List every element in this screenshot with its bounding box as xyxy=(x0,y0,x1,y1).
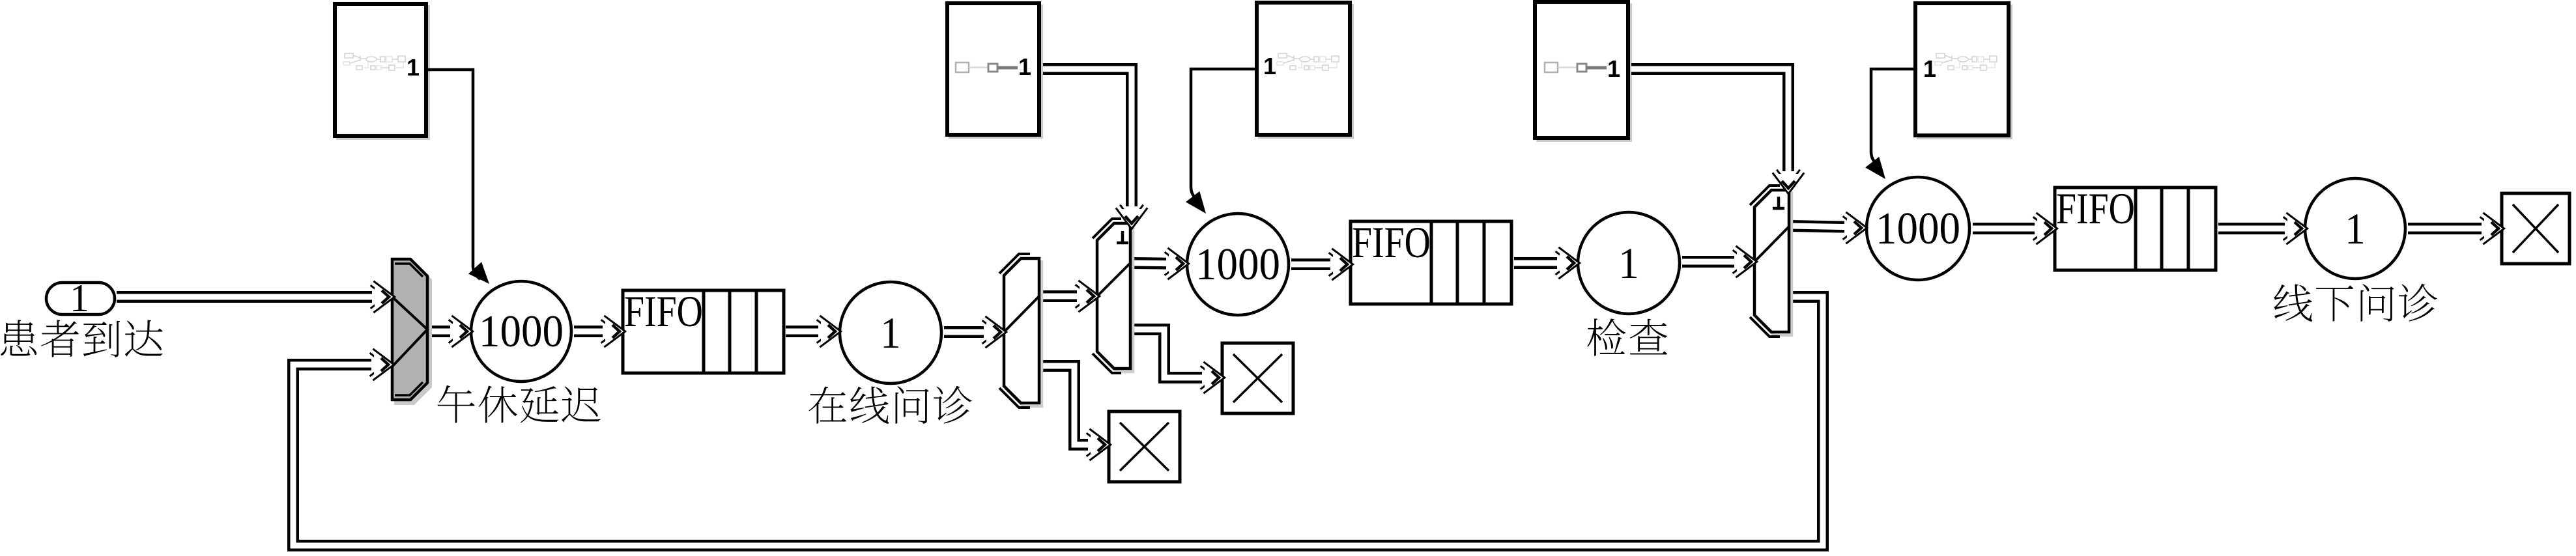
subsystem box B5 (schedule generator 3) xyxy=(1915,3,2011,138)
subsystem box B1 (schedule generator 1) xyxy=(335,4,429,139)
subsystem box B3 (schedule generator 2) xyxy=(1257,3,1352,137)
subsystem box B2 (item source for split S2) xyxy=(947,3,1042,137)
wire source capsule to merge block top input xyxy=(117,291,388,303)
delay circle 1000 (third) xyxy=(1867,177,1969,280)
label 患者到达 (patient arrival) xyxy=(1,320,162,357)
svg-text:1000: 1000 xyxy=(479,306,564,357)
svg-text:1: 1 xyxy=(1618,239,1639,288)
wire delay circle 1000 (second) to FIFO queue 2 xyxy=(1291,258,1347,270)
arrowhead into merge top input xyxy=(372,283,390,311)
wire B2 down to split S2 top input xyxy=(1043,69,1132,223)
signal wire B3 to delay circle 1000 (second) xyxy=(1186,69,1257,214)
arrowhead into sink X1 xyxy=(1088,431,1106,458)
arrowhead into FIFO queue 2 xyxy=(1330,251,1349,278)
arrowhead into delay circle 1000 (second) xyxy=(1166,250,1184,277)
arrowhead into activity circle 检查 xyxy=(1557,249,1575,277)
FIFO queue 3 xyxy=(2055,185,2216,270)
wire split S1 top output to split S2 input xyxy=(1042,290,1093,302)
wire split S3 top output to delay circle 1000 (third) xyxy=(1792,226,1861,227)
faint sub-diagram inside B2 xyxy=(956,63,1018,72)
delay circle 1000 (second) xyxy=(1187,214,1289,315)
svg-text:1: 1 xyxy=(2345,204,2366,254)
svg-text:1: 1 xyxy=(1263,53,1276,79)
signal wire B5 to delay circle 1000 (third) xyxy=(1865,69,1915,179)
sink X2 (exit after split S2) xyxy=(1222,343,1293,413)
wire activity circle 线下问诊 to sink X3 xyxy=(2408,223,2498,234)
arrowhead into sink X2 xyxy=(1202,364,1220,391)
arrowhead into split S2 left input xyxy=(1077,283,1095,310)
wire merge block to delay circle 1000 xyxy=(430,326,466,337)
arrowhead into FIFO queue 3 xyxy=(2035,215,2053,242)
arrowhead into split S3 left input xyxy=(1734,248,1753,275)
svg-text:1: 1 xyxy=(407,54,420,81)
delay circle 1000 午休延迟 xyxy=(471,281,571,382)
label 在线问诊 (online consultation) xyxy=(809,386,971,424)
wire delay circle 1000 (third) to FIFO queue 3 xyxy=(1973,223,2051,234)
split block S2 (with top input) xyxy=(1093,219,1133,373)
source capsule 患者到达 xyxy=(46,277,115,320)
svg-text:1000: 1000 xyxy=(1876,203,1960,254)
faint sub-diagram inside B5 xyxy=(1935,53,1997,70)
label 检查 (examination) xyxy=(1587,318,1667,356)
activity circle 1 检查 xyxy=(1578,212,1680,314)
svg-text:FIFO: FIFO xyxy=(624,288,703,336)
svg-text:1: 1 xyxy=(70,277,89,320)
arrowhead into split S3 top input xyxy=(1775,171,1802,189)
arrowhead into split S2 top input xyxy=(1118,206,1145,225)
faint sub-diagram inside B3 xyxy=(1277,53,1339,70)
wire B4 down to split S3 top input xyxy=(1631,69,1788,188)
faint sub-diagram inside B4 xyxy=(1545,63,1607,72)
subsystem box B4 (item source for split S3) xyxy=(1535,2,1631,141)
label 午休延迟 (lunch break delay) xyxy=(437,385,600,423)
sink X1 (exit after split S1) xyxy=(1109,411,1180,482)
merge block (2-input combiner, gray) xyxy=(392,259,431,404)
faint sub-diagram inside B1 xyxy=(343,53,405,70)
activity circle 1 线下问诊 xyxy=(2305,178,2405,279)
FIFO queue 2 xyxy=(1351,219,1511,304)
wire FIFO queue 1 to activity circle 在线问诊 xyxy=(786,326,835,337)
svg-text:FIFO: FIFO xyxy=(2056,185,2135,233)
arrowhead into delay circle 1000 xyxy=(450,318,468,345)
wire FIFO queue 3 to activity circle 线下问诊 xyxy=(2218,223,2301,234)
wire split S2 top output to delay circle 1000 (second) xyxy=(1133,263,1182,264)
svg-text:FIFO: FIFO xyxy=(1352,219,1431,267)
wire split S1 bottom output to sink X1 xyxy=(1042,366,1104,445)
sink X3 (final exit) xyxy=(2502,193,2569,264)
label 线下问诊 (offline consultation) xyxy=(2274,284,2437,322)
arrowhead into sink X3 xyxy=(2482,215,2500,242)
split block S3 (after 检查) xyxy=(1750,186,1792,337)
arrowhead into merge bottom input xyxy=(371,351,390,378)
split block S1 (after 在线问诊) xyxy=(999,254,1042,408)
wire delay circle 1000 to FIFO queue 1 xyxy=(574,326,619,337)
arrowhead into activity circle 线下问诊 xyxy=(2285,215,2303,242)
arrowhead into FIFO queue 1 xyxy=(603,318,621,345)
wire activity circle 检查 to split S3 input xyxy=(1682,256,1751,268)
wire feedback loop from split S3 bottom output to merge block bottom input xyxy=(293,297,1823,546)
svg-text:1000: 1000 xyxy=(1195,239,1280,290)
wire split S2 bottom output to sink X2 xyxy=(1133,329,1218,378)
wire activity circle 在线问诊 to split S1 input xyxy=(944,326,1000,338)
svg-text:1: 1 xyxy=(1923,55,1936,82)
FIFO queue 1 xyxy=(623,288,784,373)
svg-text:1: 1 xyxy=(880,309,901,358)
arrowhead into split S1 xyxy=(984,318,1002,346)
svg-text:1: 1 xyxy=(1018,53,1031,80)
arrowhead into delay circle 1000 (third) xyxy=(1844,214,1863,242)
wire FIFO queue 2 to activity circle 检查 xyxy=(1514,257,1573,269)
svg-text:1: 1 xyxy=(1607,55,1620,82)
signal wire B1 to delay circle 1000 xyxy=(427,70,489,284)
activity circle 1 在线问诊 xyxy=(840,282,941,383)
arrowhead into activity circle 在线问诊 xyxy=(818,318,837,345)
